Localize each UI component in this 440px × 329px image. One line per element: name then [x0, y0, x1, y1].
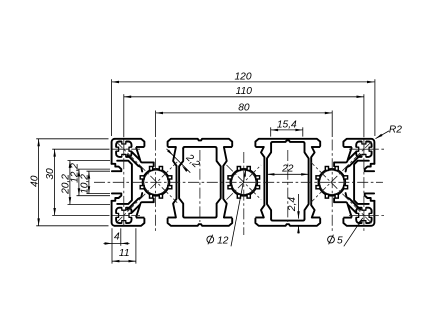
boss row top centreline right	[349, 148, 385, 150]
main horizontal centreline	[94, 181, 383, 183]
boss column left centreline	[123, 140, 125, 227]
core3 block-side webs	[343, 146, 351, 148]
core C3 screw channel	[320, 170, 344, 194]
ext 11 left	[111, 228, 113, 263]
ext 80 right solid	[331, 111, 333, 138]
wall core2-cavB	[255, 146, 263, 148]
wall cavB-core3	[312, 146, 320, 148]
centreline core1 vertical	[155, 140, 157, 234]
wall cavA-core2	[224, 146, 232, 148]
ext 30 bottom	[52, 214, 109, 216]
ext 80 left solid	[155, 111, 157, 138]
dimension 11 arrows	[112, 260, 119, 263]
top face slot1-slot2 with centre notch	[168, 139, 233, 146]
dimension 4 arrows	[105, 242, 112, 245]
dimension 2.2 arrows	[167, 150, 173, 156]
core C2 screw channel	[232, 170, 256, 194]
ext 120 right	[374, 79, 376, 136]
diagonal boss BR - core3	[311, 162, 372, 223]
ext 20.2 top	[68, 160, 111, 162]
ext 40 bottom	[36, 225, 108, 227]
dimension 22	[267, 173, 309, 175]
label d5 symbol	[328, 236, 335, 243]
svg-text:40: 40	[30, 175, 41, 187]
boss top-right	[356, 142, 371, 157]
big cavity B (1.5mm web zone top)	[271, 140, 304, 143]
wall core1-cavA (2.2)	[168, 146, 176, 148]
bottom face right of slot3 + corner + right face lower	[343, 201, 374, 226]
boss top-left (screw hole)	[116, 142, 131, 157]
ext 10.2 top	[87, 170, 111, 172]
diagonal boss TL - core1	[116, 142, 177, 203]
dimension 10.2	[88, 171, 90, 193]
left face lower + bottom-left corner	[112, 201, 115, 226]
profile top face left of slot1 + slot1 left edge	[115, 139, 145, 146]
ext 12.2 bottom	[77, 195, 111, 197]
centreline core2 vertical	[243, 152, 245, 235]
leader d5 arrow	[358, 218, 363, 225]
dimension 12.2	[78, 169, 80, 196]
dimension 120	[112, 81, 375, 83]
dimension 2.4 line upper	[298, 194, 300, 219]
right face T-slot	[365, 164, 375, 171]
big cavity A	[183, 147, 216, 149]
leader R2 arrow	[376, 134, 383, 139]
label d12 symbol	[207, 236, 214, 243]
left face upper + top-left corner	[112, 139, 115, 164]
left face T-slot	[112, 164, 122, 171]
dimension 2.4 line lower	[298, 226, 300, 234]
diagonal core2 a	[227, 165, 262, 200]
top face right of slot3 + right top corner + right face upper	[343, 139, 374, 164]
boss row bottom centreline left	[113, 214, 141, 216]
bottom face slot1-slot2 with notch	[168, 219, 233, 226]
dimension 2.2 line	[167, 149, 191, 173]
ext 11 right	[135, 228, 137, 263]
svg-text:R2: R2	[389, 124, 402, 135]
dimension 40	[38, 139, 40, 226]
centreline cavityB vertical	[287, 150, 289, 222]
dimension 110	[124, 96, 364, 98]
ext 110 left solid	[123, 94, 125, 137]
centreline core3 vertical	[331, 140, 333, 234]
dimension 80	[156, 112, 333, 114]
dimension 11 line	[112, 260, 136, 262]
diagonal core2 b	[227, 165, 262, 200]
leader d5 line	[344, 218, 363, 247]
svg-text:15,4: 15,4	[277, 119, 297, 130]
boss column right centreline	[363, 140, 365, 234]
diagonal boss TR - core3	[311, 142, 372, 203]
ext 40 top	[36, 138, 108, 140]
dimension 4 line	[104, 242, 130, 244]
leader d12 line	[231, 169, 246, 246]
ext 20.2 bottom	[68, 204, 111, 206]
svg-text:4: 4	[114, 232, 120, 243]
boss bottom-left	[116, 208, 131, 223]
dimension 2.4 arrow lower	[297, 226, 300, 233]
svg-text:80: 80	[238, 102, 250, 113]
svg-text:22: 22	[281, 164, 294, 175]
bottom face left of slot1 + slot edge	[115, 219, 145, 226]
ext 110 right solid	[363, 94, 365, 137]
top face slot2-slot3	[255, 139, 320, 146]
core1 block-side webs	[136, 146, 144, 148]
svg-text:10,2: 10,2	[80, 174, 91, 194]
svg-text:110: 110	[236, 86, 253, 97]
diagonal boss BL - core1	[116, 162, 177, 223]
core C1 screw channel	[144, 170, 168, 194]
ext 15.4 left	[270, 127, 272, 136]
centreline cavityA vertical	[199, 150, 201, 222]
boss bottom-right	[356, 208, 371, 223]
ext 120 left	[111, 79, 113, 136]
leader d12 arrow	[243, 169, 246, 177]
ext 12.2 top	[77, 168, 111, 170]
dimension 30	[54, 149, 56, 215]
svg-text:2,4: 2,4	[287, 197, 298, 212]
svg-text:12: 12	[217, 235, 229, 246]
boss row bottom centreline right	[349, 214, 385, 216]
leader R2 line	[376, 131, 390, 139]
svg-text:11: 11	[119, 248, 130, 259]
ext 4 right	[120, 228, 122, 246]
ext 30 top	[52, 148, 109, 150]
boss row top centreline left	[113, 148, 141, 150]
dimension 2.4 arrow upper	[297, 211, 300, 218]
bottom face slot2-slot3 with notch	[255, 219, 320, 226]
ext 10.2 bottom	[87, 193, 111, 195]
ext 15.4 right	[302, 127, 304, 136]
dimension 20.2	[69, 161, 71, 205]
svg-text:120: 120	[235, 71, 252, 82]
svg-text:5: 5	[337, 235, 343, 246]
svg-text:30: 30	[45, 168, 56, 180]
dimension 15.4	[271, 129, 303, 131]
